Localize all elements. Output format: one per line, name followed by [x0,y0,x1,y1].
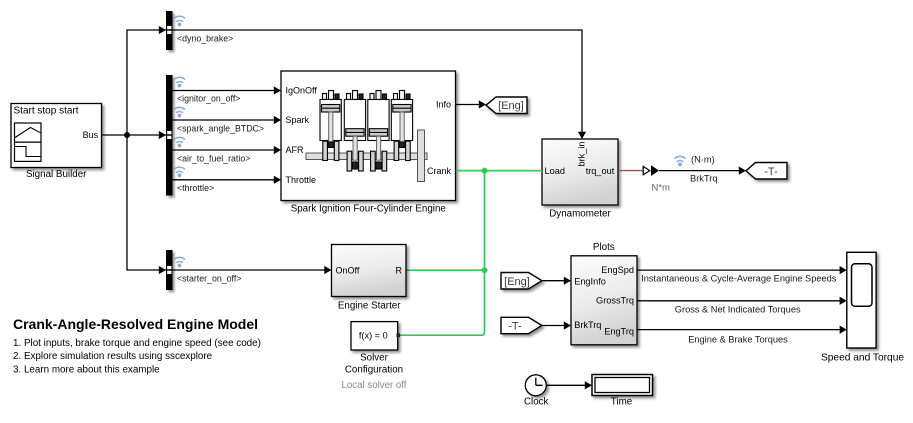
svg-text:GrossTrq: GrossTrq [596,296,634,306]
bus selector: dyno_brake bar [166,11,173,50]
wire: branch down to starter selector [127,135,166,274]
svg-text:Spark Ignition Four-Cylinder E: Spark Ignition Four-Cylinder Engine [291,204,447,215]
svg-text:<throttle>: <throttle> [177,183,214,193]
bus selector: main engine-inputs bar [166,75,173,196]
junction: green node at Crank line [482,168,488,174]
wire: dyno_brake to Dynamometer brk_in [173,30,587,139]
wire: branch up to dyno_brake selector [127,26,166,135]
engine icon: crankshaft assembly [306,91,427,182]
wire: GrossTrq to scope [637,297,847,305]
from tag: -T- [501,317,542,333]
svg-text:Throttle: Throttle [286,175,317,185]
svg-text:Engine & Brake Torques: Engine & Brake Torques [688,335,788,345]
svg-text:3. Learn more about this examp: 3. Learn more about this example [13,364,160,375]
svg-text:OnOff: OnOff [336,265,360,275]
bus selector: starter bar [166,250,173,290]
wire: EngTrq to scope [637,326,847,334]
logging badge: air_to_fuel_ratio [174,137,185,147]
logging badge: spark_angle_BTDC [174,107,185,117]
svg-text:f(x) = 0: f(x) = 0 [359,330,388,340]
logging badge: dyno_brake [174,16,185,26]
engine icon: cylinder 3 [368,91,389,172]
svg-text:Speed and Torque: Speed and Torque [821,352,904,363]
svg-text:Spark: Spark [286,115,310,125]
svg-text:Configuration: Configuration [345,365,403,376]
block: Signal Builder [11,104,102,168]
svg-text:Bus: Bus [83,130,99,140]
wire: green Crank to Load (physical) [456,170,542,172]
logging badge: throttle [174,167,185,177]
svg-text:2. Explore simulation results: 2. Explore simulation results using ssce… [13,351,213,362]
wire: green vertical to starter and solver [398,171,485,336]
wire: spark_angle_BTDC to Spark [173,116,282,124]
engine icon: crankshaft bar [306,153,427,160]
wire: starter_on_off to Engine Starter OnOff [173,266,332,274]
engine icon: cylinder 2 [344,91,365,172]
wire: Info to [Eng] goto [456,100,487,108]
svg-text:BrkTrq: BrkTrq [690,173,718,183]
svg-text:Info: Info [436,100,451,110]
svg-text:[Eng]: [Eng] [504,276,530,288]
from tag: [Eng] [501,273,542,290]
wire: Clock to Time [546,381,592,389]
wire: [Eng] to Plots EngInfo [542,277,571,285]
wire: air_to_fuel_ratio to AFR [173,146,282,154]
goto tag: -T- [746,163,787,180]
svg-text:R: R [396,265,403,275]
svg-text:-T-: -T- [764,166,778,178]
logging badge: BrkTrq [675,156,686,166]
wire: ignitor_on_off to IgOnOff [173,86,282,94]
wire: throttle to Throttle [173,176,282,184]
svg-text:Solver: Solver [360,352,389,363]
svg-text:<dyno_brake>: <dyno_brake> [177,33,233,43]
svg-text:EngSpd: EngSpd [601,265,634,275]
svg-text:Plots: Plots [593,242,615,253]
svg-text:Clock: Clock [524,396,549,407]
logging badge: ignitor_on_off [174,77,185,87]
svg-text:Engine Starter: Engine Starter [338,300,401,311]
port: PS output hollow triangle [643,166,650,174]
block: Engine Starter [332,245,407,297]
svg-text:brk_in: brk_in [577,141,587,166]
svg-text:Load: Load [545,166,565,176]
block: Solver Configuration [351,322,400,350]
svg-text:<ignitor_on_off>: <ignitor_on_off> [177,94,240,104]
block: Time display [592,375,653,396]
svg-text:AFR: AFR [286,145,305,155]
svg-text:Dynamometer: Dynamometer [549,209,611,220]
svg-text:Local solver off: Local solver off [342,380,407,391]
junction: green node at starter line [482,267,488,273]
wire: trq_out physical signal (maroon) [618,170,643,172]
wire: green Engine Starter R to vertical [406,269,485,271]
block: Clock [525,375,546,396]
logging badge: starter_on_off [174,257,185,267]
svg-text:1. Plot inputs, brake torque a: 1. Plot inputs, brake torque and engine … [13,338,261,349]
svg-text:<air_to_fuel_ratio>: <air_to_fuel_ratio> [177,153,250,163]
block: Plots subsystem [571,256,637,345]
svg-text:Crank-Angle-Resolved Engine Mo: Crank-Angle-Resolved Engine Model [13,316,258,332]
engine icon: flywheel [418,130,425,182]
engine icon: cylinder 4 [391,91,412,161]
svg-text:BrkTrq: BrkTrq [574,320,601,330]
svg-text:-T-: -T- [508,321,522,333]
svg-text:[Eng]: [Eng] [498,100,524,112]
svg-text:IgOnOff: IgOnOff [286,86,318,96]
svg-text:Gross & Net Indicated Torques: Gross & Net Indicated Torques [675,304,801,314]
block: Dynamometer [542,139,618,205]
svg-text:(N·m): (N·m) [691,155,715,165]
port: Simulink input solid triangle [651,165,659,176]
engine icon: cylinder 1 [320,91,341,161]
junction: bus trunk branch node [124,132,130,138]
wire: -T- to Plots BrkTrq [542,321,571,329]
block: Speed and Torque scope [847,252,876,348]
svg-text:<spark_angle_BTDC>: <spark_angle_BTDC> [177,123,264,133]
wire: bus trunk from Signal Builder to bus selector [102,131,166,139]
svg-text:Time: Time [611,396,633,407]
wire: BrkTrq to -T- goto [659,167,746,175]
svg-text:Signal Builder: Signal Builder [26,169,87,180]
goto tag: [Eng] [486,97,527,114]
svg-text:Crank: Crank [427,166,452,176]
svg-text:Start stop start: Start stop start [14,106,79,117]
svg-text:N*m: N*m [652,183,671,194]
svg-text:EngTrq: EngTrq [604,327,634,337]
svg-text:Instantaneous & Cycle-Average: Instantaneous & Cycle-Average Engine Spe… [641,274,837,284]
wire: EngSpd to scope [637,266,847,274]
svg-text:<starter_on_off>: <starter_on_off> [177,273,241,283]
svg-text:EngInfo: EngInfo [574,276,606,286]
svg-text:trq_out: trq_out [586,166,615,176]
block: Spark Ignition Four-Cylinder Engine [281,71,456,201]
